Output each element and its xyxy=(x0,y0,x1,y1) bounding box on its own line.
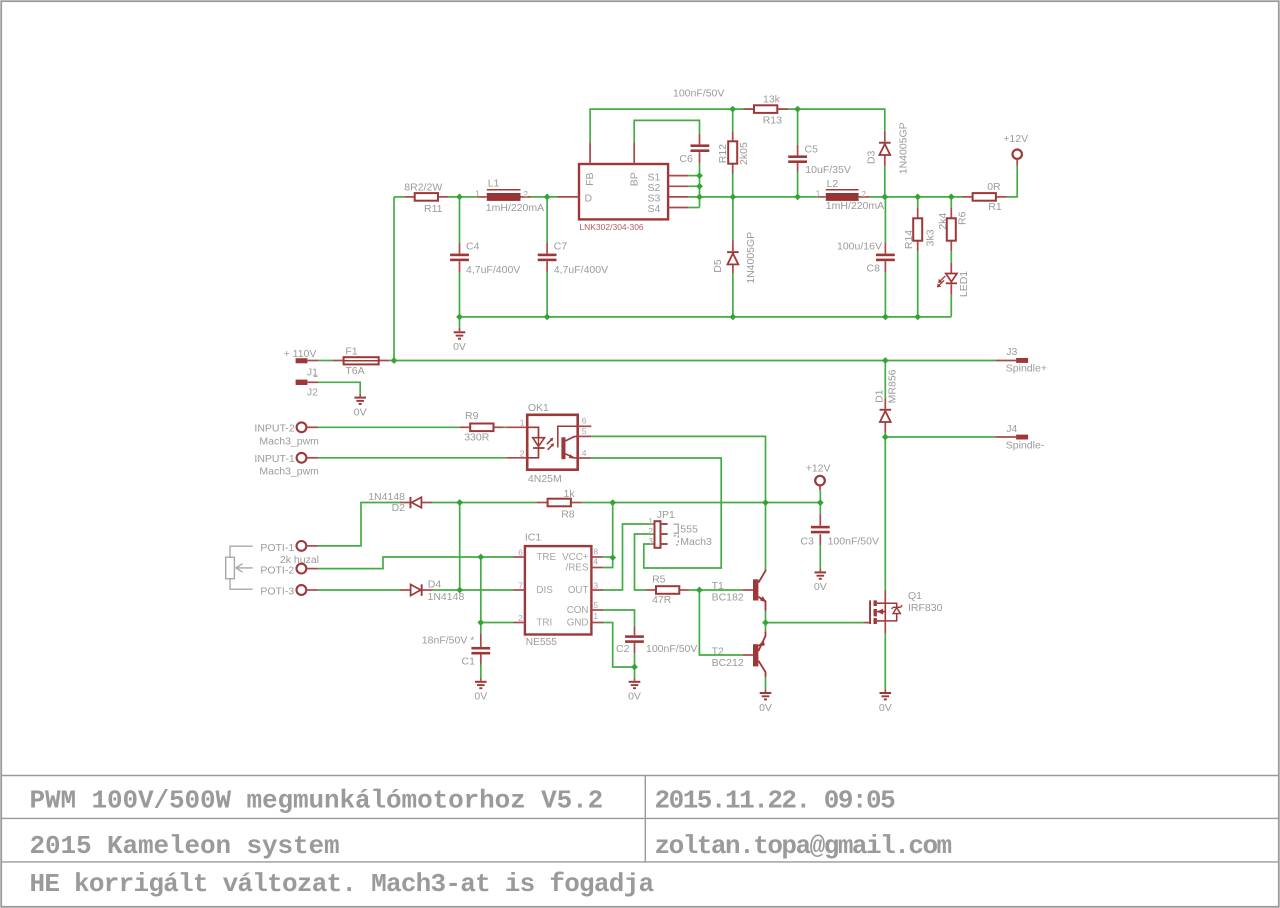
wire OK1 pin4 to JP1 pin3 xyxy=(591,458,721,568)
junction at 547.1,196.9 xyxy=(544,194,551,201)
label L1 value xyxy=(486,202,544,214)
junction at 459.5,196.9 xyxy=(456,194,463,201)
connector POTI-3 xyxy=(297,585,319,595)
label OK1 pin 1 xyxy=(520,417,525,427)
wire R14 top xyxy=(917,197,919,208)
svg-text:IRF830: IRF830 xyxy=(908,602,943,614)
svg-text:TRI: TRI xyxy=(536,618,552,629)
svg-text:CON: CON xyxy=(567,605,589,616)
label 0V C1 xyxy=(474,691,487,703)
wire R12 bottom xyxy=(732,174,734,197)
wire R1 to +12V corner xyxy=(1007,166,1017,197)
label POTI-2 xyxy=(260,564,294,576)
diode D1 xyxy=(880,398,892,432)
svg-text:BC212: BC212 xyxy=(712,657,744,669)
svg-text:3: 3 xyxy=(593,580,598,590)
wire gate net xyxy=(766,622,864,624)
label D4 value 1N4148 xyxy=(428,591,465,603)
svg-text:6: 6 xyxy=(518,548,523,558)
label OK1 pin 2 xyxy=(520,448,525,458)
svg-text:FB: FB xyxy=(584,172,596,185)
svg-text:330R: 330R xyxy=(464,432,490,444)
title block row2 right email xyxy=(655,831,952,861)
resistor R5 xyxy=(645,586,689,594)
capacitor C5 xyxy=(788,145,807,172)
svg-text:Spindle+: Spindle+ xyxy=(1006,363,1047,375)
op-amp U1 LNK302 IC box xyxy=(557,143,688,220)
svg-text:T1: T1 xyxy=(712,580,724,592)
label R8 name xyxy=(561,509,575,521)
svg-text:BP: BP xyxy=(628,172,640,186)
label INPUT-1 xyxy=(254,453,294,465)
label INPUT-2 xyxy=(254,423,294,435)
wire S1 stub net xyxy=(689,175,700,177)
svg-text:D3: D3 xyxy=(866,151,878,165)
label C6 name xyxy=(679,153,693,165)
svg-text:4,7uF/400V: 4,7uF/400V xyxy=(554,264,608,276)
ground 0V main xyxy=(454,328,466,339)
label OK1 value 4N25M xyxy=(528,473,562,485)
wire left vertical to fuse row xyxy=(393,197,395,361)
label IC1 pin CON xyxy=(567,605,589,616)
label JP1 pin 3 xyxy=(648,536,653,546)
svg-text:R8: R8 xyxy=(561,509,575,521)
title block row1 right date xyxy=(655,785,896,815)
label D5 name xyxy=(712,259,724,273)
svg-text:4N25M: 4N25M xyxy=(528,473,562,485)
label C3 value xyxy=(828,536,879,548)
svg-text:D5: D5 xyxy=(712,259,724,273)
svg-text:R9: R9 xyxy=(465,410,479,422)
resistor R6 xyxy=(947,208,956,252)
connector POTI-1 xyxy=(297,541,319,551)
svg-text:+12V: +12V xyxy=(1003,133,1028,145)
label F1 value T6A xyxy=(345,365,364,377)
wire POTI-3 to D4 xyxy=(318,589,400,591)
svg-text:J3: J3 xyxy=(1006,346,1017,358)
svg-text:R14: R14 xyxy=(903,230,915,249)
svg-text:2015.11.22. 09:05: 2015.11.22. 09:05 xyxy=(655,785,896,815)
wire OK1 pin5 to +12V rail xyxy=(591,436,765,502)
fuse F1 xyxy=(333,357,389,364)
potentiometer sketch xyxy=(226,546,253,589)
svg-text:10uF/35V: 10uF/35V xyxy=(805,164,851,176)
svg-text:C2: C2 xyxy=(616,643,630,655)
svg-text:OK1: OK1 xyxy=(528,402,549,414)
wire R8 junction to VCC xyxy=(603,503,613,568)
wire R14 bottom xyxy=(917,251,919,317)
wire R12 top xyxy=(732,109,734,132)
junction at 917.7,196.9 xyxy=(914,194,921,201)
label IC1 pin DIS xyxy=(536,585,553,596)
wire R6 top xyxy=(950,197,952,208)
svg-text:5: 5 xyxy=(593,600,598,610)
wire D3 bottom xyxy=(884,166,886,197)
label T1 value BC182 xyxy=(712,592,744,604)
svg-text:18nF/50V *: 18nF/50V * xyxy=(422,634,475,646)
capacitor C8 xyxy=(876,243,895,272)
label D4 name xyxy=(428,578,442,590)
bracket Mach3 xyxy=(674,536,679,545)
wire C8 bottom xyxy=(884,272,886,317)
label U1 pin S2 xyxy=(648,182,661,194)
capacitor C1 xyxy=(471,634,490,665)
svg-text:1: 1 xyxy=(475,188,480,198)
wire C3 top xyxy=(819,503,821,515)
label T2 value BC212 xyxy=(712,657,744,669)
svg-text:2: 2 xyxy=(648,526,653,536)
wire 0V bottom rail xyxy=(460,316,952,318)
label R9 value 330R xyxy=(464,432,490,444)
wire S4 stub net xyxy=(689,207,700,209)
label L1 pin 1 xyxy=(475,188,480,198)
svg-text:LNK302/304-306: LNK302/304-306 xyxy=(579,222,644,232)
junction at 885.3,360.5 xyxy=(882,357,889,364)
label L2 name xyxy=(827,178,839,190)
wire Q1 source to ground xyxy=(884,633,886,689)
label INPUT-1 Mach3_pwm xyxy=(259,466,319,478)
label U1 pin S4 xyxy=(648,203,661,215)
svg-text:R1: R1 xyxy=(988,201,1002,213)
label R13 name xyxy=(763,115,782,127)
wire C4 top xyxy=(459,197,461,243)
label C1 value 18nF/50V * xyxy=(422,634,475,646)
svg-text:Spindle-: Spindle- xyxy=(1006,439,1045,451)
svg-text:JP1: JP1 xyxy=(657,509,675,521)
svg-text:L1: L1 xyxy=(488,178,500,190)
label IC1 value NE555 xyxy=(526,637,557,648)
svg-text:4: 4 xyxy=(582,448,587,458)
label +12V top right xyxy=(1003,133,1028,145)
svg-text:R6: R6 xyxy=(956,211,968,225)
svg-text:L2: L2 xyxy=(827,178,839,190)
connector J1 pad xyxy=(296,358,318,363)
wire C6 to S-pins vertical xyxy=(699,163,701,207)
label R9 name xyxy=(465,410,479,422)
label R5 value 47R xyxy=(652,594,672,606)
svg-text:DIS: DIS xyxy=(536,585,553,596)
svg-text:POTI-3: POTI-3 xyxy=(260,586,294,598)
wire R9 to OK1 pin1 xyxy=(504,426,507,428)
svg-text:C7: C7 xyxy=(554,240,568,252)
wire R6 to LED1 xyxy=(950,251,952,263)
wire D4 to DIS xyxy=(433,589,514,591)
svg-text:INPUT-1: INPUT-1 xyxy=(254,453,294,465)
label R14 name xyxy=(903,230,915,249)
svg-text:2: 2 xyxy=(523,189,528,199)
svg-text:VCC+: VCC+ xyxy=(562,552,589,563)
svg-text:C8: C8 xyxy=(867,263,881,275)
svg-text:C1: C1 xyxy=(462,655,476,667)
label JP1 name xyxy=(657,509,675,521)
svg-text:POTI-2: POTI-2 xyxy=(260,564,294,576)
svg-text:R11: R11 xyxy=(424,203,443,215)
label Q1 value IRF830 xyxy=(908,602,943,614)
svg-text:D1: D1 xyxy=(874,389,886,403)
junction at 765.5,502.6 xyxy=(762,499,769,506)
svg-text:R13: R13 xyxy=(763,115,782,127)
label J3 name xyxy=(1006,346,1017,358)
svg-text:1N4005GP: 1N4005GP xyxy=(898,122,910,174)
wire POTI-1 up to D2 row xyxy=(318,503,400,546)
wire D2 net vertical to DIS xyxy=(459,503,461,591)
wire FB net top xyxy=(590,109,885,143)
wire S2 stub net xyxy=(689,185,700,187)
label IC1 pin VCC+ xyxy=(562,552,589,563)
wire D1 to J4 junction xyxy=(884,433,886,438)
svg-text:IC1: IC1 xyxy=(525,531,542,543)
junction at 699.5,175.6 xyxy=(696,172,703,179)
svg-text:0V: 0V xyxy=(474,691,487,703)
label U1 pin D xyxy=(585,192,593,204)
label D3 value 1N4005GP xyxy=(898,122,910,174)
svg-text:1: 1 xyxy=(593,611,598,621)
label J3 Spindle+ xyxy=(1006,363,1047,375)
label C4 value xyxy=(466,264,520,276)
label 0V Q1 xyxy=(879,702,892,714)
resistor R12 xyxy=(728,132,737,174)
junction at 797.6,196.9 xyxy=(794,194,801,201)
svg-text:47R: 47R xyxy=(652,594,672,606)
junction at 459.7,502.5 xyxy=(456,499,463,506)
wire J4 row xyxy=(885,436,995,438)
label OK1 pin 5 xyxy=(582,426,587,436)
connector INPUT-2 xyxy=(297,422,318,432)
label R6 name xyxy=(956,211,968,225)
svg-text:1mH/220mA: 1mH/220mA xyxy=(486,202,544,214)
label 555 xyxy=(680,523,698,535)
label R11 value 8R2/2W xyxy=(404,182,442,194)
wire VCC+ stub net xyxy=(603,556,613,558)
label J4 name xyxy=(1006,423,1017,435)
svg-text:POTI-1: POTI-1 xyxy=(260,542,294,554)
label IC1 pin OUT xyxy=(568,585,589,596)
diode D3 xyxy=(879,131,891,166)
svg-text:HE korrigált változat. Mach3-a: HE korrigált változat. Mach3-at is fogad… xyxy=(30,869,654,899)
svg-text:3k3: 3k3 xyxy=(924,229,936,246)
label D3 name xyxy=(866,151,878,165)
label INPUT-2 Mach3_pwm xyxy=(259,435,319,447)
wire R5 to T1 base xyxy=(689,589,743,591)
label U1 pin BP xyxy=(628,172,640,186)
label LED1 name xyxy=(958,271,970,297)
wire D5 bottom xyxy=(732,273,734,317)
svg-text:S4: S4 xyxy=(648,203,661,215)
capacitor C2 xyxy=(625,627,644,654)
svg-text:8R2/2W: 8R2/2W xyxy=(404,182,442,194)
label IC1 pin number 4 xyxy=(593,557,598,567)
wire J2 to ground xyxy=(318,382,360,394)
ground 0V C2 xyxy=(629,679,641,689)
label IC1 pin number 3 xyxy=(593,580,598,590)
label R1 value 0R xyxy=(987,181,1001,193)
label C7 name xyxy=(554,240,568,252)
label IC1 pin GND xyxy=(567,617,589,628)
wire J1 to fuse xyxy=(318,360,333,362)
wire C5 bottom xyxy=(797,172,799,197)
label JP1 pin 1 xyxy=(648,516,653,526)
label D1 name xyxy=(874,389,886,403)
wire C2 ground stub xyxy=(634,667,636,679)
label POTI-1 xyxy=(260,542,294,554)
svg-text:LED1: LED1 xyxy=(958,271,970,297)
svg-text:Q1: Q1 xyxy=(908,590,922,602)
svg-text:1: 1 xyxy=(816,188,821,198)
label R12 name xyxy=(717,144,729,163)
wire S3 to L2 xyxy=(689,196,818,198)
resistor R9 xyxy=(460,424,504,432)
label F1 name xyxy=(345,346,357,358)
wire TRI to C1 xyxy=(480,623,482,635)
connector J4 pad xyxy=(995,435,1028,440)
svg-text:6: 6 xyxy=(582,415,587,425)
label L2 value xyxy=(826,200,884,212)
inductor L2 xyxy=(818,190,870,201)
wire C1 to ground xyxy=(480,665,482,679)
LED LED1 xyxy=(937,263,957,295)
svg-text:J4: J4 xyxy=(1006,423,1017,435)
transistor T1 xyxy=(743,569,767,610)
junction at 612.7,502.6 xyxy=(609,499,616,506)
svg-text:0V: 0V xyxy=(814,581,827,593)
svg-text:8: 8 xyxy=(593,546,598,556)
junction at 885.3,437.0 xyxy=(882,434,889,441)
label R1 name xyxy=(988,201,1002,213)
bracket 555 xyxy=(674,524,679,533)
svg-text:2: 2 xyxy=(518,613,523,623)
resistor R11 xyxy=(405,193,449,201)
svg-text:J2: J2 xyxy=(307,387,318,399)
wire BP net xyxy=(634,120,699,142)
wire C5 top xyxy=(797,109,799,145)
svg-text:2: 2 xyxy=(520,448,525,458)
connector JP1 xyxy=(655,521,668,548)
svg-text:+ 110V: + 110V xyxy=(284,348,317,360)
svg-text:0V: 0V xyxy=(354,406,367,418)
label C6 value 100nF/50V xyxy=(673,88,724,100)
junction at 732.7,109.1 xyxy=(729,106,736,113)
svg-text:TRE: TRE xyxy=(536,552,556,563)
label U1 pin S3 xyxy=(648,193,661,205)
junction at 951.3,196.9 xyxy=(948,194,955,201)
svg-text:1N4005GP: 1N4005GP xyxy=(745,232,757,284)
junction at 732.9,316.9 xyxy=(730,314,737,321)
label R13 value 13k xyxy=(763,94,781,106)
junction at 634.5,667.0 xyxy=(631,664,638,671)
title block row3 note xyxy=(30,869,654,899)
label R14 value 3k3 xyxy=(924,229,936,246)
junction at 480.8,557.0 xyxy=(477,554,484,561)
wire C3 bottom xyxy=(819,545,821,569)
label C2 name xyxy=(616,643,630,655)
wire D2 to R8 xyxy=(432,502,537,504)
svg-text:C4: C4 xyxy=(466,240,480,252)
label C8 name xyxy=(867,263,881,275)
ground 0V J2 xyxy=(354,394,366,404)
resistor R14 xyxy=(913,208,922,252)
junction at 547.1,316.9 xyxy=(544,314,551,321)
wire J3 junction to D1 xyxy=(884,361,886,399)
svg-text:Mach3: Mach3 xyxy=(680,536,712,548)
connector J2 pad xyxy=(296,380,318,385)
svg-text:2k4: 2k4 xyxy=(937,213,949,230)
label U1 value LNK302/304-306 xyxy=(579,222,644,232)
svg-text:R5: R5 xyxy=(652,574,666,586)
wire L2 to R1 xyxy=(869,196,962,198)
svg-text:Mach3_pwm: Mach3_pwm xyxy=(259,466,319,478)
wire TRE junction vertical xyxy=(480,557,482,623)
svg-text:NE555: NE555 xyxy=(526,637,557,648)
svg-text:D: D xyxy=(585,192,593,204)
label U1 pin S1 xyxy=(648,171,661,183)
label C7 value xyxy=(554,264,608,276)
wire C7 top xyxy=(546,197,548,243)
label C8 value 100u/16V xyxy=(837,241,882,253)
junction at 885.4,316.9 xyxy=(882,314,889,321)
label C4 name xyxy=(466,240,480,252)
junction at 884.8,196.9 xyxy=(881,194,888,201)
label R11 name xyxy=(424,203,443,215)
svg-text:+12V: +12V xyxy=(806,463,831,475)
label J4 Spindle- xyxy=(1006,439,1045,451)
label IC1 pin number 7 xyxy=(518,580,523,590)
label +110V xyxy=(284,348,317,360)
label IC1 name xyxy=(525,531,542,543)
title block row2 left xyxy=(30,831,340,861)
label IC1 pin TRE xyxy=(536,552,556,563)
label R12 value 2k05 xyxy=(738,142,750,165)
label T2 name xyxy=(712,646,724,658)
label C3 name xyxy=(800,536,814,548)
label IC1 pin /RES xyxy=(566,563,589,574)
svg-text:OUT: OUT xyxy=(568,585,589,596)
wire C7 bottom xyxy=(546,272,548,317)
wire C8 top xyxy=(884,197,886,243)
resistor R13 xyxy=(744,105,789,113)
label IC1 pin number 2 xyxy=(518,613,523,623)
wire R8 to +12V node xyxy=(581,502,820,504)
svg-text:2k05: 2k05 xyxy=(738,142,750,165)
svg-text:0R: 0R xyxy=(987,181,1001,193)
ground 0V T2 xyxy=(760,690,772,700)
svg-text:T6A: T6A xyxy=(345,365,364,377)
label R6 value 2k4 xyxy=(937,213,949,230)
label 0V C2 xyxy=(628,691,641,703)
svg-text:2: 2 xyxy=(861,189,866,199)
optocoupler OK1 xyxy=(506,415,591,470)
wire R11 to L1 xyxy=(449,196,477,198)
svg-text:F1: F1 xyxy=(345,346,357,358)
label R5 name xyxy=(652,574,666,586)
label L2 pin 2 xyxy=(861,189,866,199)
svg-text:100nF/50V: 100nF/50V xyxy=(673,88,724,100)
svg-text:4: 4 xyxy=(593,557,598,567)
label OK1 name xyxy=(528,402,549,414)
label IC1 pin number 6 xyxy=(518,548,523,558)
junction at 394,360.5 xyxy=(391,357,398,364)
svg-text:1mH/220mA: 1mH/220mA xyxy=(826,200,884,212)
label C5 value xyxy=(805,164,851,176)
label C1 name xyxy=(462,655,476,667)
label D2 value 1N4148 xyxy=(368,491,405,503)
svg-text:555: 555 xyxy=(680,523,698,535)
junction at 797.6,109.1 xyxy=(794,106,801,113)
label D2 name xyxy=(392,502,406,514)
label IC1 pin number 1 xyxy=(593,611,598,621)
svg-text:0V: 0V xyxy=(879,702,892,714)
connector INPUT-1 xyxy=(297,453,318,463)
label 0V main xyxy=(453,341,466,353)
